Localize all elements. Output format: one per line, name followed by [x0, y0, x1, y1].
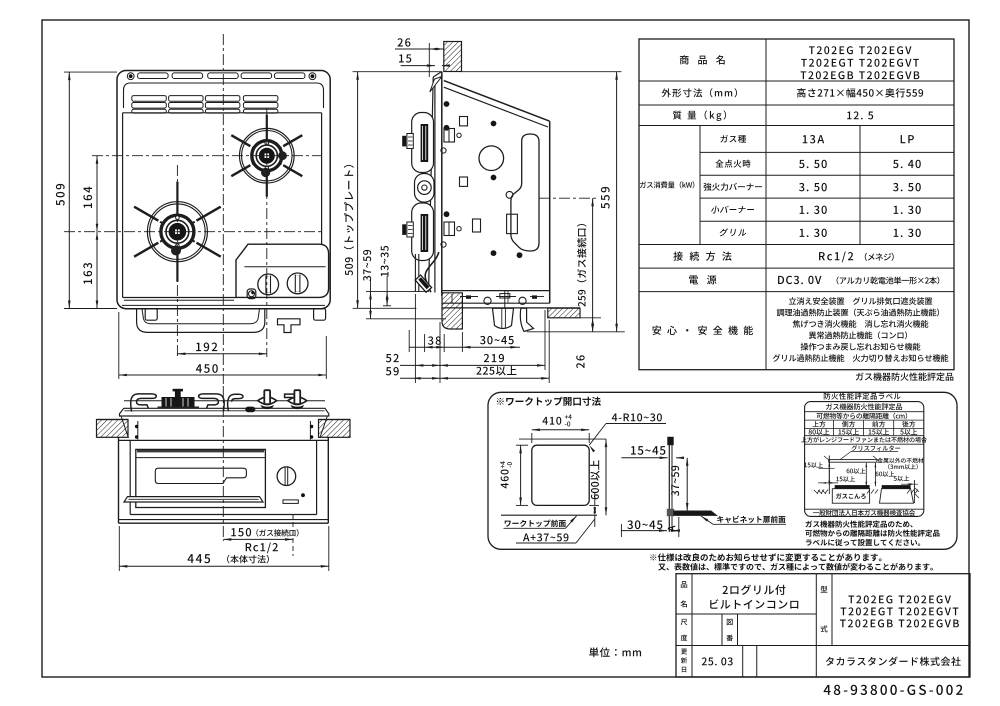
- front dim 150: hidden extension line: [292, 514, 294, 556]
- fire label diagram: dim 60 right: [876, 471, 895, 477]
- top view: control panel: [236, 244, 329, 297]
- side view: bottom plate lines: [442, 302, 550, 304]
- side dim 559: label: [601, 187, 610, 209]
- worktop dim 410: label: [542, 417, 561, 425]
- front view: top plate: [120, 408, 329, 416]
- side dim 59: label: [386, 367, 399, 375]
- worktop dim 15-45: line and label: [621, 457, 667, 459]
- side dim 225plus: label: [476, 366, 516, 376]
- top view: cooktop body outline: [117, 71, 330, 309]
- dim 450: extension lines: [118, 312, 120, 379]
- worktop dim A+37-59: arrows: [589, 504, 599, 506]
- side dim 52: label: [386, 354, 399, 362]
- top view: right burner: [283, 135, 302, 146]
- side view: interior small rects: [460, 117, 468, 126]
- dim 163: label: [83, 263, 92, 284]
- side bottom dims: extension verticals: [408, 330, 410, 352]
- drawing number: [824, 685, 963, 695]
- front view: top plate back rim line: [124, 400, 325, 402]
- fire label diagram: gas stove silhouette: [835, 485, 870, 489]
- dim 192: dimension line: [177, 353, 266, 355]
- worktop dim 460: label: [501, 469, 509, 488]
- side dim 13-35: label: [381, 246, 389, 276]
- top view: left burner ignition plug: [172, 246, 181, 255]
- spec table: row 小バーナー: [711, 206, 755, 214]
- side dim 26 bottom: label and arrows: [580, 317, 601, 319]
- top view: grill exhaust slots rows 2-4: [132, 96, 167, 102]
- side view: lower panel face lines: [414, 254, 416, 292]
- side view: knob shaft A: [407, 134, 413, 149]
- top view: corner screw right: [309, 73, 316, 80]
- worktop dim 4-R10-30: label and leader: [612, 413, 662, 421]
- side dim 59 and 225plus: dimension line: [400, 377, 549, 379]
- worktop dim 30-45: line and label: [621, 530, 667, 532]
- front dim 445: extension lines: [118, 526, 120, 571]
- fire label: heading 離隔距離: [817, 413, 908, 420]
- spec table: row 安心・安全機能: [652, 326, 753, 335]
- front view: left grate curl 2 (mirrored): [199, 394, 225, 412]
- front view: grill window: [155, 468, 246, 483]
- note: specification disclaimer line 1: [650, 553, 881, 561]
- worktop box: title: [497, 397, 601, 406]
- spec table: row グリル: [719, 228, 747, 236]
- side dim 559: extension lines: [462, 71, 622, 73]
- spec table: gas consumption header cell: [640, 181, 695, 188]
- front view: mounting brackets: [137, 421, 139, 440]
- worktop dim 460: dimension line: [516, 444, 528, 446]
- side view: interior rivet dots: [444, 101, 450, 107]
- title block: company name: [826, 657, 961, 666]
- dim 164: label: [83, 187, 92, 208]
- side view: front foot pad (tilted): [415, 275, 431, 292]
- top view: left burner centerline vertical: [176, 165, 178, 357]
- side dim 509 top-plate: dimension line: [357, 72, 359, 309]
- fire label diagram: incombustible note: [877, 458, 923, 463]
- fire label diagram: dim 60 center: [847, 468, 866, 474]
- dim 192: label: [196, 343, 217, 352]
- top view: left burner: [196, 207, 220, 221]
- fire label: note line: [801, 437, 927, 443]
- front view: counter top lines and hatched sections: [97, 419, 129, 421]
- front view: indicator dot: [301, 493, 305, 497]
- side dim 38 and 30-45: dimension line: [409, 346, 520, 348]
- side view: burner capsule A: [412, 113, 434, 173]
- title block: 図番 label: [727, 619, 733, 625]
- title block: revision date: [702, 657, 733, 665]
- spec table: row 強火力バーナー: [704, 183, 762, 191]
- side view: slanted top edge band: [444, 81, 550, 122]
- top view: corner screw left: [127, 73, 134, 80]
- title block: 品名 label: [681, 581, 687, 588]
- worktop label A+37-59: [523, 533, 568, 541]
- side view: counter cross-section right (hatched): [548, 308, 580, 318]
- side view: counter cross-section front (hatched): [442, 293, 462, 329]
- side dim 52 and 219: dimension line: [400, 364, 545, 366]
- front view: battery cover: [283, 500, 298, 504]
- side view: gas connection centerline: [539, 197, 598, 199]
- title block: model numbers: [848, 595, 951, 603]
- top view: knob right: [287, 273, 308, 294]
- side dim 559: dimension line: [616, 72, 618, 332]
- side view: large circle: [479, 146, 504, 171]
- spec table: grid: [639, 39, 954, 370]
- fire label diagram: ground hatching: [817, 490, 820, 494]
- worktop dim 37-59 small: line and label: [686, 458, 688, 511]
- side view: base frame mechanism: [442, 290, 550, 292]
- dim 509 left: dimension line: [68, 72, 70, 308]
- dim 163: dimension line: [96, 232, 98, 309]
- front dim 445: label: [187, 554, 210, 563]
- worktop label ワークトップ前面: [505, 520, 566, 527]
- top view: ignition button: [247, 289, 256, 299]
- dim 450: label: [196, 364, 218, 373]
- side view: knob shaft B: [407, 222, 413, 237]
- title block: 尺度 label: [681, 619, 688, 625]
- side dim 38: label: [428, 336, 441, 344]
- worktop cabinet: cabinet top bar: [674, 511, 717, 515]
- front view: body case: [118, 437, 120, 523]
- worktop box: front face line: [501, 514, 597, 516]
- spec table: row 電源: [689, 275, 716, 284]
- title block: grid: [676, 574, 970, 677]
- worktop box: opening square: [532, 445, 589, 505]
- dim 450: dimension line: [119, 374, 326, 376]
- front view: grill handle: [124, 497, 263, 502]
- spec table: row 質量: [673, 110, 726, 120]
- side view: bottom hook: [520, 308, 533, 331]
- side view: top counter cross-section (hatched): [444, 42, 462, 72]
- spec table: row 商品名: [680, 55, 725, 64]
- spec table: row 接続方法: [673, 251, 731, 260]
- top view: body bottom inner line: [122, 304, 325, 306]
- title block: product name: [723, 585, 786, 595]
- front view: round knob: [277, 467, 296, 486]
- note: specification disclaimer line 2: [658, 563, 933, 571]
- note: unit mm: [589, 647, 641, 657]
- front view: small pill: [245, 407, 255, 413]
- fire label diagram: adjacent cabinet silhouette: [882, 485, 911, 489]
- worktop dim 410: extension and dimension lines: [531, 433, 533, 443]
- side dim 15: label and line: [399, 54, 411, 62]
- fire label: direction table: [813, 421, 826, 427]
- side dim 37-59: reference lines: [366, 290, 429, 292]
- top view: top plate inner rect: [123, 112, 322, 114]
- fire label: title: [824, 393, 901, 400]
- fire label diagram: dim 15 left: [804, 462, 823, 468]
- worktop dim 600plus: label: [590, 460, 600, 499]
- side dim 219: label: [484, 354, 504, 362]
- fire label diagram: left wall line: [828, 456, 830, 495]
- side dim 259: dimension line: [592, 198, 594, 332]
- side view: J-shaped slot: [511, 134, 539, 251]
- fire label diagram: hood filter bar: [829, 460, 877, 463]
- fire label: association line: [805, 508, 924, 510]
- front view: knob 2 (front): [288, 397, 307, 405]
- side view: bottom foot bolt: [493, 308, 514, 328]
- worktop label キャビネット扉前面: [717, 516, 785, 523]
- worktop dim 600plus: dimension line: [605, 439, 607, 515]
- spec table: row 外形寸法: [662, 88, 737, 97]
- front dim 150: dimension line: [223, 538, 293, 540]
- side dim 37-59: label: [363, 250, 371, 281]
- front view: right grate curl: [228, 394, 243, 411]
- fire label diagram: grease filter label: [852, 445, 901, 451]
- top view: right burner ignition plug: [262, 169, 270, 177]
- top view: drip tray: [137, 309, 265, 332]
- front dim 445: dimension line: [119, 565, 328, 567]
- spec table: row ガス種: [720, 135, 746, 143]
- front view: knob 1 (front): [258, 397, 277, 405]
- worktop cabinet: wall section line: [668, 437, 670, 532]
- top view: left burner centerline horizontal: [64, 231, 322, 233]
- dim 509 left: label: [56, 184, 65, 206]
- side view: front face panel lines: [429, 77, 434, 290]
- side view: burner capsule B: [412, 203, 434, 261]
- top view: right burner centerline horizontal: [92, 155, 322, 157]
- fire label diagram: dim 15 lower: [836, 476, 855, 482]
- side dim 37-59: dimension line: [370, 291, 372, 318]
- worktop box: ext line above square: [519, 438, 606, 440]
- side dim 509 top-plate: extension lines: [353, 71, 442, 73]
- title block: 更新日 label: [681, 649, 687, 655]
- fire label: caution text below: [805, 520, 912, 527]
- front dim Rc1/2: label: [246, 542, 278, 553]
- fire label diagram: right wall line: [913, 480, 915, 503]
- side view: back edge vertical: [549, 121, 551, 303]
- dim 164: dimension line: [96, 156, 98, 232]
- fire label: outer rounded box: [805, 402, 924, 517]
- side view: front bottom strut (curved): [425, 252, 439, 292]
- title block: 型式 label: [821, 586, 828, 593]
- front view: grill door: [136, 449, 266, 507]
- fire label: heading ガス機器防火性能評定品: [826, 403, 902, 410]
- front view: centerline: [222, 386, 224, 541]
- top view: body bottom feet: [145, 309, 157, 321]
- fire label diagram: dim 5: [894, 476, 909, 482]
- side dim 13-35: dimension line: [386, 291, 388, 305]
- side view: middle capsule with ring: [415, 174, 435, 203]
- top view: grill exhaust slots row 1: [138, 73, 169, 79]
- dim 509 left: extension lines: [64, 71, 117, 73]
- front view: left burner head (front): [162, 397, 195, 408]
- side dim 30-45: label: [480, 336, 514, 344]
- top view: knob left: [258, 274, 279, 295]
- worktop dim A: line and label: [678, 517, 680, 537]
- front dim 150: label: [231, 528, 251, 536]
- side view: small circle at slot: [506, 191, 513, 198]
- side dim 259: label: [577, 224, 587, 307]
- top view: vertical centerline: [222, 34, 224, 384]
- side view: bracket clips: [444, 129, 455, 143]
- side dim 509 top-plate: label: [344, 165, 354, 276]
- spec table: row 全点火時: [716, 160, 751, 168]
- top view: gas inlet tab: [278, 319, 301, 333]
- worktop opening box: rounded border: [488, 392, 957, 549]
- side dim 26 top: label and line: [398, 38, 411, 46]
- top view: inner rim line: [124, 83, 324, 108]
- front view: left grate curl 1: [131, 394, 157, 412]
- top view: right burner centerline vertical: [266, 108, 268, 357]
- spec table: note ガス機器防火性能評定品: [856, 372, 954, 380]
